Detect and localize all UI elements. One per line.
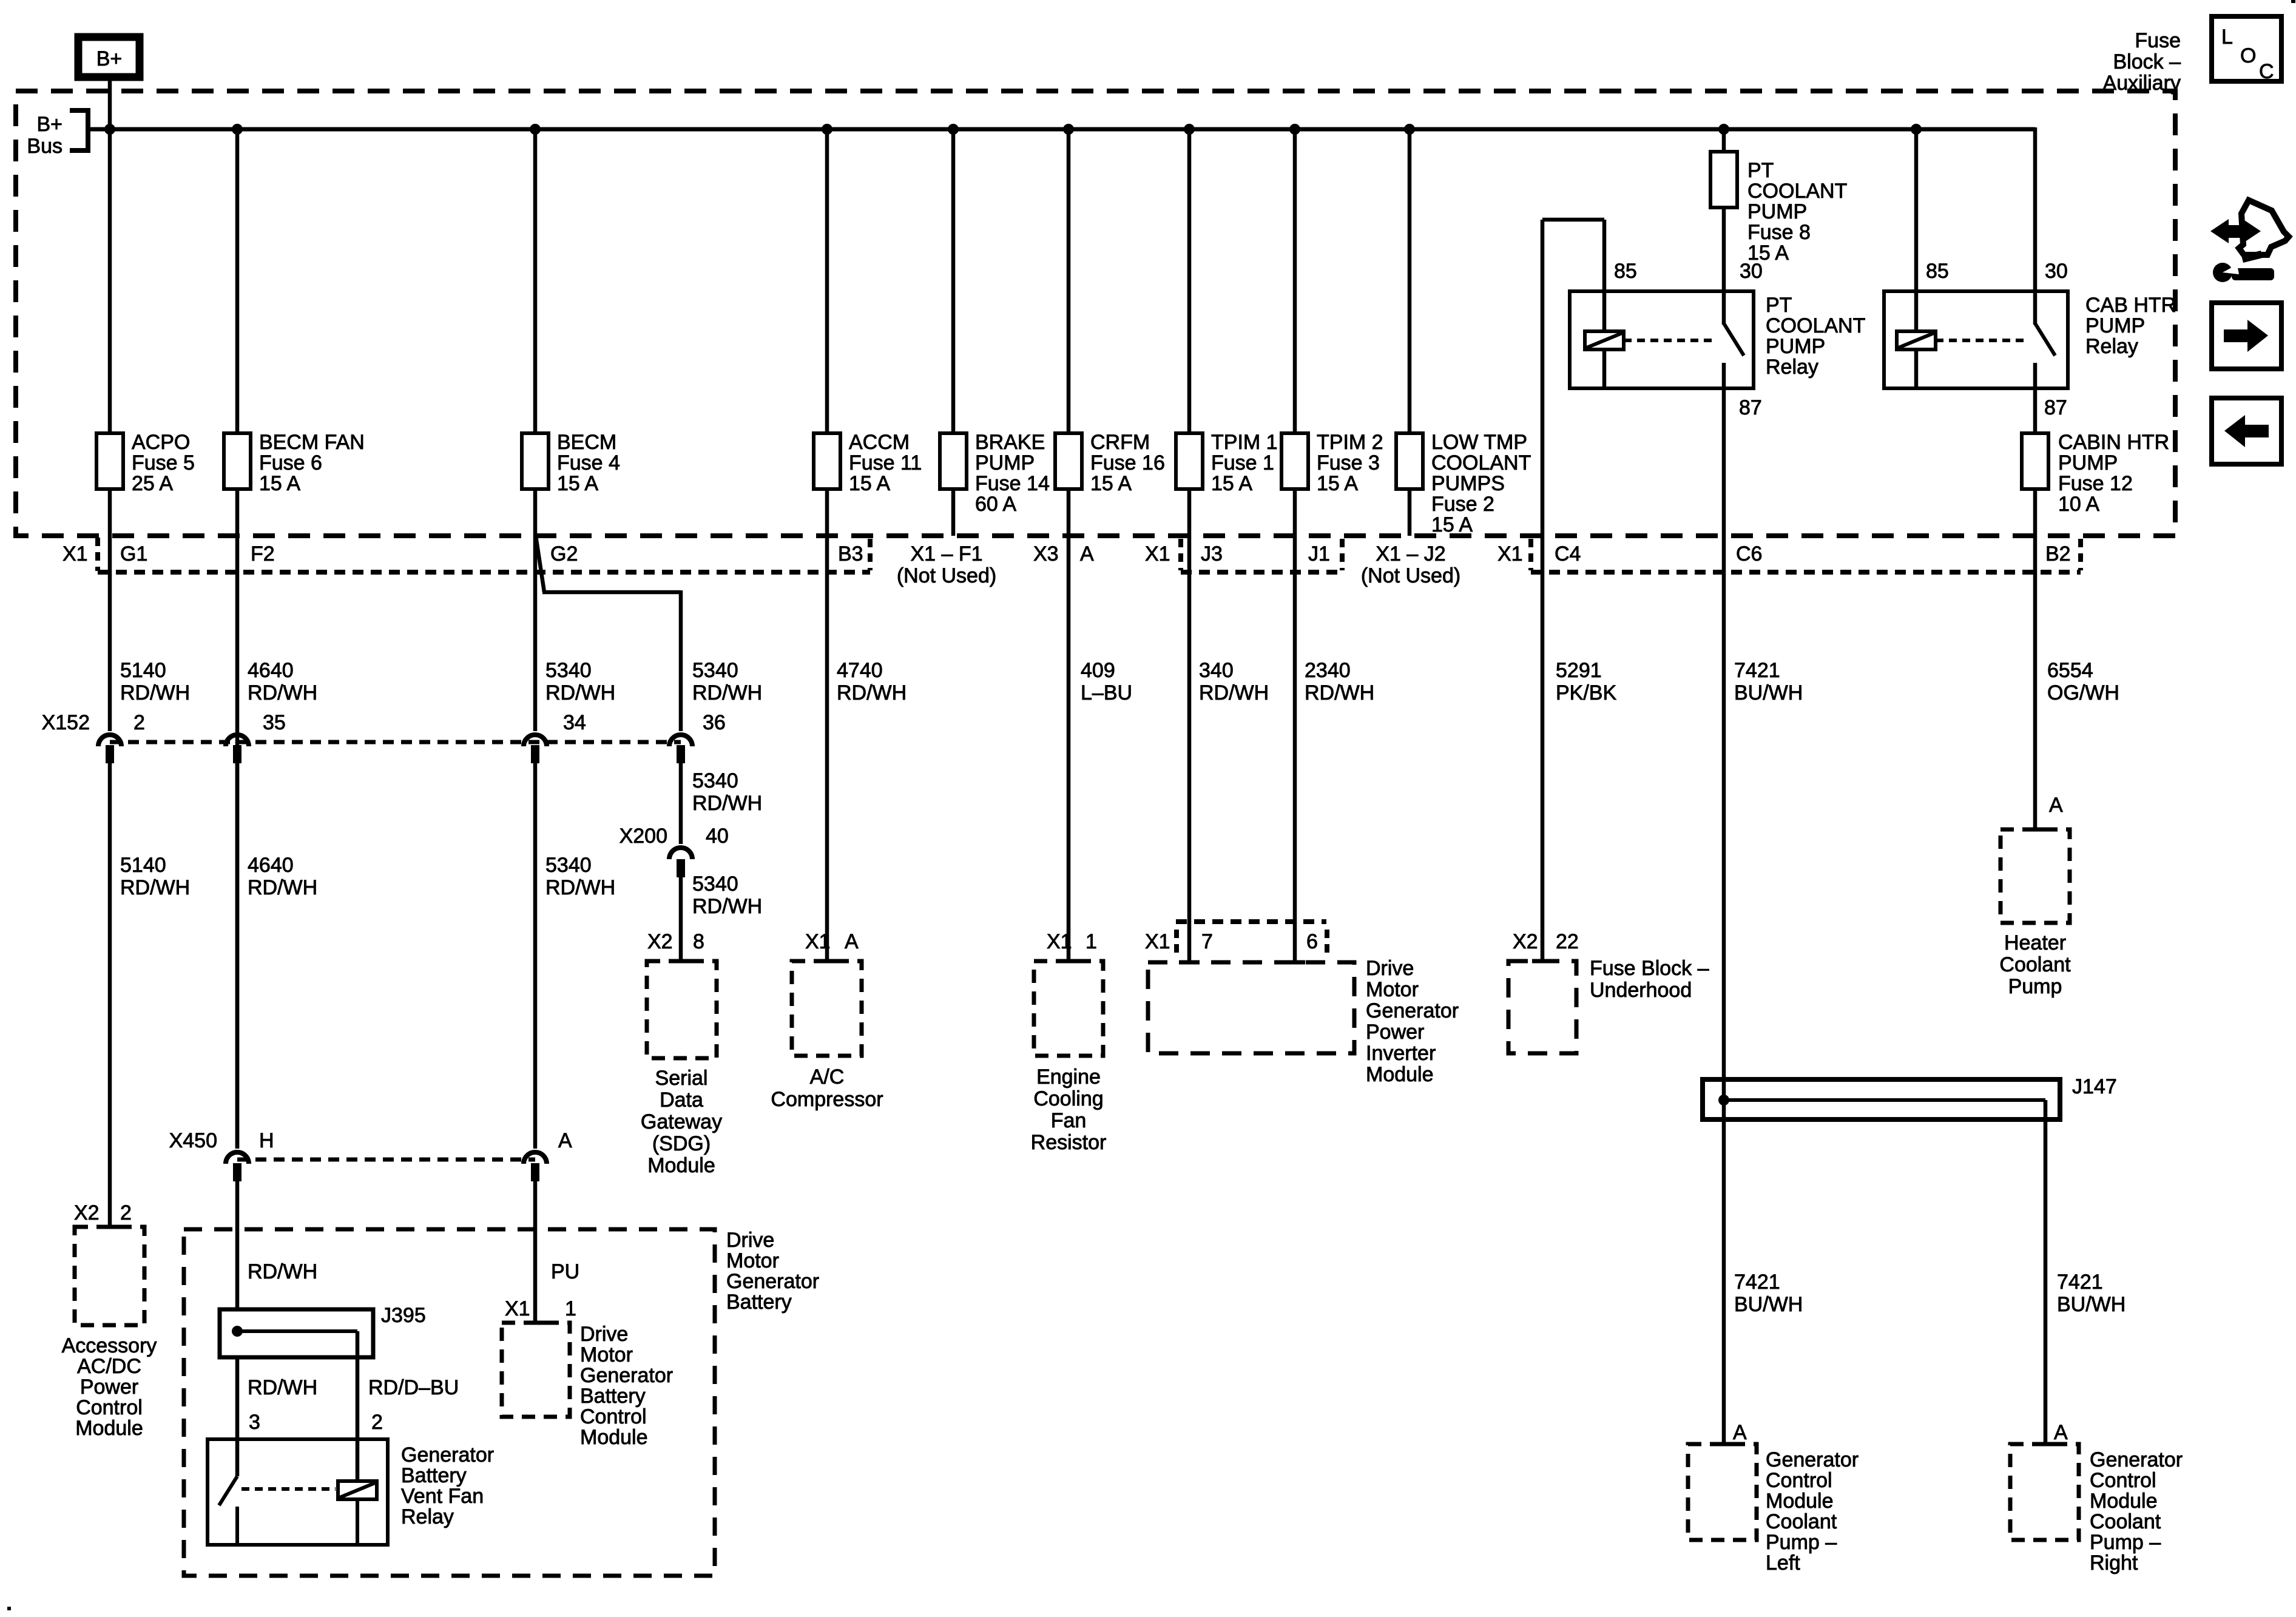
svg-text:4740: 4740: [837, 659, 883, 682]
svg-text:36: 36: [703, 711, 726, 734]
svg-text:4640: 4640: [248, 854, 294, 877]
svg-text:Control: Control: [580, 1405, 647, 1428]
svg-text:Fuse 6: Fuse 6: [259, 451, 322, 474]
svg-text:5291: 5291: [1556, 659, 1602, 682]
svg-text:Control: Control: [1766, 1469, 1832, 1492]
svg-text:30: 30: [2045, 260, 2068, 283]
svg-text:Vent Fan: Vent Fan: [401, 1485, 484, 1508]
svg-text:Auxiliary: Auxiliary: [2103, 72, 2181, 95]
svg-text:85: 85: [1614, 260, 1637, 283]
svg-text:BU/WH: BU/WH: [1734, 681, 1803, 704]
svg-text:Module: Module: [647, 1154, 715, 1177]
svg-text:C6: C6: [1736, 542, 1762, 565]
svg-text:CAB HTR: CAB HTR: [2085, 294, 2176, 317]
svg-text:15 A: 15 A: [1090, 472, 1132, 495]
svg-text:Fuse 8: Fuse 8: [1747, 221, 1811, 244]
svg-text:Fuse 5: Fuse 5: [132, 451, 195, 474]
svg-text:RD/WH: RD/WH: [545, 681, 615, 704]
svg-text:Module: Module: [1366, 1063, 1434, 1086]
svg-text:RD/WH: RD/WH: [692, 895, 762, 918]
svg-text:Fuse: Fuse: [2135, 29, 2181, 52]
svg-text:8: 8: [693, 930, 704, 953]
svg-text:X2: X2: [74, 1201, 100, 1224]
svg-text:RD/WH: RD/WH: [248, 876, 317, 899]
svg-text:409: 409: [1081, 659, 1115, 682]
svg-text:35: 35: [263, 711, 286, 734]
svg-text:X1: X1: [1145, 542, 1170, 565]
svg-text:H: H: [259, 1129, 274, 1152]
svg-text:C: C: [2259, 60, 2274, 83]
svg-text:X3: X3: [1033, 542, 1059, 565]
svg-text:85: 85: [1926, 260, 1949, 283]
svg-text:Coolant: Coolant: [1766, 1510, 1837, 1533]
svg-text:Pump –: Pump –: [1766, 1531, 1837, 1554]
svg-text:Generator: Generator: [401, 1443, 494, 1467]
svg-text:Module: Module: [1766, 1490, 1834, 1513]
svg-text:Drive: Drive: [580, 1323, 628, 1346]
svg-text:RD/WH: RD/WH: [1305, 681, 1374, 704]
svg-text:RD/WH: RD/WH: [120, 681, 190, 704]
svg-text:15 A: 15 A: [1211, 472, 1252, 495]
svg-text:X2: X2: [647, 930, 673, 953]
svg-text:AC/DC: AC/DC: [77, 1355, 141, 1378]
svg-text:Generator: Generator: [1766, 1448, 1859, 1471]
svg-text:Pump –: Pump –: [2090, 1531, 2161, 1554]
svg-text:Compressor: Compressor: [771, 1088, 883, 1111]
svg-text:RD/WH: RD/WH: [1199, 681, 1269, 704]
svg-text:Fan: Fan: [1051, 1109, 1087, 1132]
svg-text:J3: J3: [1201, 542, 1223, 565]
svg-text:Generator: Generator: [726, 1270, 819, 1293]
svg-text:Fuse 2: Fuse 2: [1431, 493, 1494, 516]
svg-text:(SDG): (SDG): [652, 1132, 711, 1155]
svg-text:Motor: Motor: [580, 1343, 633, 1366]
svg-text:3: 3: [249, 1411, 260, 1434]
svg-text:ACPO: ACPO: [132, 431, 190, 454]
svg-text:OG/WH: OG/WH: [2047, 681, 2119, 704]
svg-text:15 A: 15 A: [557, 472, 598, 495]
svg-text:X1: X1: [1145, 930, 1170, 953]
svg-text:A: A: [845, 930, 859, 953]
svg-text:Resistor: Resistor: [1031, 1131, 1107, 1154]
svg-text:340: 340: [1199, 659, 1234, 682]
svg-text:PK/BK: PK/BK: [1556, 681, 1616, 704]
svg-text:PUMP: PUMP: [975, 451, 1035, 474]
svg-text:Coolant: Coolant: [2090, 1510, 2161, 1533]
svg-text:10 A: 10 A: [2058, 493, 2099, 516]
svg-text:COOLANT: COOLANT: [1431, 451, 1531, 474]
svg-text:Underhood: Underhood: [1590, 979, 1692, 1002]
svg-text:Control: Control: [2090, 1469, 2156, 1492]
svg-text:BRAKE: BRAKE: [975, 431, 1045, 454]
svg-text:Fuse 1: Fuse 1: [1211, 451, 1274, 474]
svg-text:1: 1: [565, 1297, 576, 1320]
svg-text:X450: X450: [169, 1129, 217, 1152]
svg-text:5340: 5340: [692, 873, 738, 896]
svg-text:RD/WH: RD/WH: [545, 876, 615, 899]
svg-text:Fuse 14: Fuse 14: [975, 472, 1050, 495]
svg-text:J395: J395: [381, 1304, 426, 1327]
svg-text:RD/WH: RD/WH: [248, 681, 317, 704]
svg-text:TPIM 2: TPIM 2: [1317, 431, 1383, 454]
svg-text:B3: B3: [838, 542, 863, 565]
svg-text:5340: 5340: [692, 769, 738, 792]
svg-text:J1: J1: [1308, 542, 1330, 565]
svg-text:COOLANT: COOLANT: [1766, 314, 1865, 337]
svg-text:Fuse 4: Fuse 4: [557, 451, 620, 474]
svg-text:(Not Used): (Not Used): [897, 564, 996, 587]
svg-text:F2: F2: [251, 542, 275, 565]
svg-text:X1 – J2: X1 – J2: [1376, 542, 1445, 565]
svg-text:Fuse 16: Fuse 16: [1090, 451, 1165, 474]
svg-text:4640: 4640: [248, 659, 294, 682]
svg-text:Engine: Engine: [1036, 1065, 1101, 1089]
svg-text:25 A: 25 A: [132, 472, 173, 495]
svg-text:X2: X2: [1513, 930, 1538, 953]
svg-text:2340: 2340: [1305, 659, 1351, 682]
svg-text:PU: PU: [551, 1260, 579, 1283]
svg-text:PUMPS: PUMPS: [1431, 472, 1505, 495]
svg-text:PUMP: PUMP: [2058, 451, 2118, 474]
svg-text:X1: X1: [805, 930, 831, 953]
svg-text:2: 2: [371, 1411, 383, 1434]
svg-text:Fuse 3: Fuse 3: [1317, 451, 1380, 474]
svg-text:1: 1: [1086, 930, 1097, 953]
svg-text:PUMP: PUMP: [1766, 335, 1825, 358]
svg-text:15 A: 15 A: [1431, 513, 1473, 536]
svg-text:Motor: Motor: [726, 1249, 779, 1272]
svg-text:A: A: [1733, 1421, 1747, 1444]
svg-text:Battery: Battery: [401, 1464, 467, 1487]
svg-text:BU/WH: BU/WH: [1734, 1293, 1803, 1316]
svg-text:22: 22: [1556, 930, 1579, 953]
svg-text:PUMP: PUMP: [1747, 200, 1807, 223]
svg-text:7421: 7421: [1734, 659, 1780, 682]
svg-text:5140: 5140: [120, 659, 166, 682]
svg-text:COOLANT: COOLANT: [1747, 180, 1847, 203]
svg-text:X1: X1: [62, 542, 88, 565]
svg-text:5340: 5340: [545, 854, 592, 877]
svg-text:2: 2: [120, 1201, 132, 1224]
svg-text:15 A: 15 A: [849, 472, 890, 495]
svg-text:B+: B+: [96, 47, 123, 70]
svg-text:Module: Module: [2090, 1490, 2158, 1513]
svg-text:Generator: Generator: [1366, 999, 1459, 1022]
svg-text:15 A: 15 A: [1317, 472, 1358, 495]
svg-text:RD/D–BU: RD/D–BU: [368, 1376, 459, 1399]
svg-text:PT: PT: [1766, 294, 1792, 317]
svg-text:BECM FAN: BECM FAN: [259, 431, 365, 454]
svg-text:Gateway: Gateway: [641, 1110, 722, 1133]
svg-text:Pump: Pump: [2008, 975, 2062, 998]
svg-text:Module: Module: [75, 1417, 143, 1440]
svg-text:Inverter: Inverter: [1366, 1042, 1436, 1065]
svg-text:Control: Control: [76, 1396, 143, 1419]
svg-text:TPIM 1: TPIM 1: [1211, 431, 1278, 454]
svg-text:BU/WH: BU/WH: [2057, 1293, 2125, 1316]
svg-text:5340: 5340: [545, 659, 592, 682]
svg-text:B2: B2: [2045, 542, 2071, 565]
svg-text:A: A: [2049, 794, 2063, 817]
svg-text:Bus: Bus: [27, 135, 62, 158]
svg-text:C4: C4: [1555, 542, 1581, 565]
svg-text:Relay: Relay: [401, 1505, 454, 1528]
svg-text:34: 34: [563, 711, 586, 734]
svg-text:6554: 6554: [2047, 659, 2093, 682]
svg-text:Fuse Block –: Fuse Block –: [1590, 957, 1709, 980]
svg-text:PUMP: PUMP: [2085, 314, 2145, 337]
svg-text:Power: Power: [80, 1376, 138, 1399]
svg-text:A: A: [558, 1129, 572, 1152]
svg-text:X1: X1: [1047, 930, 1072, 953]
svg-text:O: O: [2240, 44, 2256, 67]
svg-text:Serial: Serial: [655, 1067, 708, 1090]
svg-text:15 A: 15 A: [259, 472, 300, 495]
svg-text:Coolant: Coolant: [1999, 953, 2071, 976]
svg-text:CRFM: CRFM: [1090, 431, 1150, 454]
svg-text:Cooling: Cooling: [1033, 1087, 1103, 1110]
svg-text:87: 87: [2044, 396, 2067, 419]
svg-text:RD/WH: RD/WH: [837, 681, 907, 704]
svg-text:2: 2: [133, 711, 145, 734]
svg-text:ACCM: ACCM: [849, 431, 910, 454]
svg-text:Heater: Heater: [2004, 931, 2066, 954]
svg-text:Generator: Generator: [580, 1364, 673, 1387]
svg-text:Drive: Drive: [1366, 957, 1414, 980]
svg-text:7421: 7421: [1734, 1271, 1780, 1294]
svg-text:A: A: [2054, 1421, 2068, 1444]
svg-text:G1: G1: [120, 542, 147, 565]
svg-text:6: 6: [1306, 930, 1318, 953]
svg-text:X152: X152: [42, 711, 90, 734]
svg-text:Power: Power: [1366, 1021, 1424, 1044]
svg-text:BECM: BECM: [557, 431, 616, 454]
svg-text:A: A: [1080, 542, 1094, 565]
svg-text:L–BU: L–BU: [1081, 681, 1132, 704]
svg-text:7: 7: [1201, 930, 1213, 953]
svg-text:Fuse 11: Fuse 11: [849, 451, 922, 474]
svg-text:RD/WH: RD/WH: [692, 792, 762, 815]
svg-text:RD/WH: RD/WH: [248, 1260, 317, 1283]
svg-text:X200: X200: [620, 825, 667, 848]
svg-text:5340: 5340: [692, 659, 738, 682]
svg-text:Module: Module: [580, 1426, 648, 1449]
svg-text:RD/WH: RD/WH: [248, 1376, 317, 1399]
svg-text:X1 – F1: X1 – F1: [910, 542, 982, 565]
svg-text:A/C: A/C: [810, 1065, 845, 1089]
svg-text:Data: Data: [660, 1089, 703, 1112]
svg-text:30: 30: [1740, 260, 1763, 283]
svg-text:RD/WH: RD/WH: [120, 876, 190, 899]
svg-text:J147: J147: [2072, 1075, 2117, 1098]
svg-text:(Not Used): (Not Used): [1361, 564, 1460, 587]
svg-text:B+: B+: [36, 113, 62, 136]
svg-text:7421: 7421: [2057, 1271, 2103, 1294]
svg-text:Battery: Battery: [580, 1385, 646, 1408]
svg-text:Left: Left: [1766, 1551, 1800, 1575]
svg-text:60 A: 60 A: [975, 493, 1016, 516]
svg-text:X1: X1: [1497, 542, 1523, 565]
svg-text:X1: X1: [505, 1297, 530, 1320]
svg-text:Accessory: Accessory: [62, 1334, 157, 1357]
svg-text:Relay: Relay: [2085, 335, 2138, 358]
svg-text:L: L: [2221, 25, 2233, 49]
svg-text:Relay: Relay: [1766, 356, 1818, 379]
svg-text:87: 87: [1739, 396, 1762, 419]
svg-text:40: 40: [706, 825, 729, 848]
svg-text:Right: Right: [2090, 1551, 2138, 1575]
svg-text:Motor: Motor: [1366, 978, 1419, 1001]
svg-text:G2: G2: [550, 542, 578, 565]
svg-text:PT: PT: [1747, 159, 1774, 182]
svg-text:Block –: Block –: [2113, 50, 2181, 73]
svg-text:Drive: Drive: [726, 1229, 774, 1252]
svg-text:CABIN HTR: CABIN HTR: [2058, 431, 2169, 454]
svg-text:Battery: Battery: [726, 1291, 792, 1314]
svg-text:5140: 5140: [120, 854, 166, 877]
svg-text:Generator: Generator: [2090, 1448, 2183, 1471]
svg-text:RD/WH: RD/WH: [692, 681, 762, 704]
svg-text:Fuse 12: Fuse 12: [2058, 472, 2133, 495]
svg-text:LOW TMP: LOW TMP: [1431, 431, 1527, 454]
